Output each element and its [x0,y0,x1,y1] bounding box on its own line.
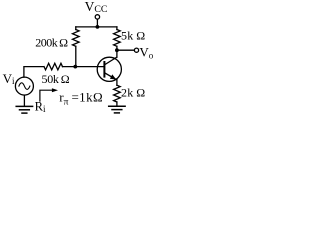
svg-text:5k Ω: 5k Ω [121,29,146,43]
terminal Vo [134,48,138,52]
wire top rail Vcc [76,26,117,28]
node collector junction [115,48,119,52]
wire 200k top lead [75,27,77,30]
wire emitter lead [116,80,118,85]
arrow Ri input resistance [40,90,53,101]
svg-text:Vo: Vo [139,44,153,60]
wire collector lead [116,50,118,57]
terminal Vcc [95,15,99,19]
ground emitter [109,106,125,113]
ground Vi [16,106,32,113]
svg-text:50k Ω: 50k Ω [42,72,70,86]
resistor 50k zigzag [44,63,63,70]
transistor Q1 emitter stroke [104,73,117,80]
svg-text:Ri: Ri [35,99,46,114]
svg-text:rπ =1kΩ: rπ =1kΩ [59,90,103,108]
node top junction [96,25,100,29]
transistor Q1 emitter arrowhead [110,74,116,79]
node base junction [73,65,77,69]
transistor Q1 base bar [103,62,105,77]
wire 5k bottom lead [116,46,118,50]
resistor 200k zigzag [73,30,80,47]
transistor Q1 circle [97,57,121,81]
wire 2k bottom lead [116,102,118,106]
wire 200k bottom lead [75,46,77,66]
svg-text:VCC: VCC [85,0,108,15]
source Vi sine [19,83,30,90]
wire 5k top lead [116,27,118,30]
wire to Vo [117,49,134,51]
wire Vi bottom lead [23,95,25,106]
svg-text:Vi: Vi [3,71,15,86]
svg-text:2k Ω: 2k Ω [121,85,146,99]
transistor Q1 collector stroke [104,57,117,65]
svg-text:200k Ω: 200k Ω [35,35,68,49]
source Vi circle [15,77,33,95]
wire Vcc stub [96,19,98,27]
wire base rail [63,66,105,68]
resistor 5k zigzag [114,30,121,47]
wire Vi top lead [24,67,44,78]
resistor 2k zigzag [114,85,121,102]
